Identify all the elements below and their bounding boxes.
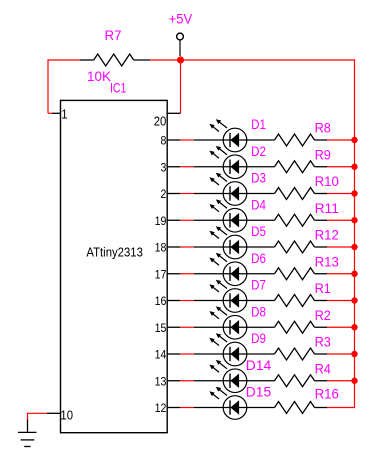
svg-text:R10: R10 xyxy=(315,173,339,189)
wire net pin 2 to LED D3 xyxy=(180,193,194,195)
svg-text:14: 14 xyxy=(155,348,167,362)
ground GND symbol xyxy=(18,419,37,446)
wire net pin 16 to LED D7 xyxy=(180,300,194,302)
svg-text:D8: D8 xyxy=(251,303,266,319)
pin 8 of IC1 xyxy=(161,134,181,148)
pin 14 of IC1 xyxy=(155,348,180,362)
wire +5V right rail bus xyxy=(354,59,356,408)
svg-text:D1: D1 xyxy=(251,116,266,132)
junction node row R9 xyxy=(351,164,357,170)
pin 12 of IC1 xyxy=(155,401,180,415)
svg-text:R8: R8 xyxy=(315,120,331,136)
resistor R9 xyxy=(275,161,328,173)
resistor R1 xyxy=(275,295,328,307)
wire +5V net: left drop to pin 1 xyxy=(47,59,80,113)
wire net R12 to +5V rail xyxy=(327,246,355,248)
resistor R10 xyxy=(275,188,328,200)
label R4 xyxy=(315,360,331,376)
resistor R16 xyxy=(275,402,328,414)
svg-text:10: 10 xyxy=(60,408,73,423)
label D15 xyxy=(246,384,272,400)
label R3 xyxy=(315,334,331,350)
resistor R8 xyxy=(275,134,328,146)
resistor R7 xyxy=(80,54,150,66)
wire net R11 to +5V rail xyxy=(327,219,355,221)
label R13 xyxy=(315,253,339,269)
LED D15 xyxy=(194,387,275,420)
svg-text:D6: D6 xyxy=(251,250,266,266)
svg-text:R3: R3 xyxy=(315,334,331,350)
label D6 xyxy=(251,250,266,266)
svg-text:D15: D15 xyxy=(246,384,272,400)
pin 15 of IC1 xyxy=(155,321,180,335)
svg-text:19: 19 xyxy=(155,214,167,228)
junction +5V node xyxy=(177,56,184,63)
svg-text:2: 2 xyxy=(161,187,167,201)
label R8 xyxy=(315,120,331,136)
pin 1 of IC1 xyxy=(52,106,68,121)
svg-text:R9: R9 xyxy=(315,146,331,162)
junction node row R2 xyxy=(351,324,357,330)
wire net R4 to +5V rail xyxy=(327,380,355,382)
wire net to pin 1 xyxy=(48,112,52,114)
svg-text:10K: 10K xyxy=(87,68,112,84)
wire net R1 to +5V rail xyxy=(327,300,355,302)
resistor R13 xyxy=(275,268,328,280)
LED D4 xyxy=(194,199,275,232)
junction node row R10 xyxy=(351,190,357,196)
svg-text:18: 18 xyxy=(155,241,167,255)
svg-text:ATtiny2313: ATtiny2313 xyxy=(86,245,142,260)
svg-text:13: 13 xyxy=(155,374,167,388)
pin 20 of IC1 xyxy=(154,113,181,128)
wire net pin 19 to LED D4 xyxy=(180,219,194,221)
svg-text:D9: D9 xyxy=(251,330,266,346)
svg-text:R13: R13 xyxy=(315,253,339,269)
wire +5V net: top bus to right rail xyxy=(180,59,355,61)
label R11 xyxy=(315,200,339,216)
label R9 xyxy=(315,146,331,162)
svg-text:R16: R16 xyxy=(315,386,339,402)
wire net pin 14 to LED D9 xyxy=(180,353,194,355)
LED D7 xyxy=(194,280,275,313)
wire net R16 to +5V rail xyxy=(327,407,355,409)
junction node row R1 xyxy=(351,297,357,303)
pin 2 of IC1 xyxy=(161,187,181,201)
junction node row R8 xyxy=(351,137,357,143)
wire net R13 to +5V rail xyxy=(327,273,355,275)
svg-text:16: 16 xyxy=(155,294,167,308)
svg-text:12: 12 xyxy=(155,401,167,415)
label ATtiny2313 xyxy=(86,245,142,260)
LED D14 xyxy=(194,360,275,393)
label R12 xyxy=(315,227,339,243)
label D1 xyxy=(251,116,266,132)
label D5 xyxy=(251,223,266,239)
LED D9 xyxy=(194,333,275,366)
pin 19 of IC1 xyxy=(155,214,180,228)
resistor R11 xyxy=(275,214,328,226)
IC IC1 ATtiny2313 body xyxy=(61,100,168,432)
junction node row R4 xyxy=(351,378,357,384)
label R10 xyxy=(315,173,339,189)
junction node row R13 xyxy=(351,271,357,277)
pin 10 of IC1 xyxy=(47,408,73,423)
svg-text:IC1: IC1 xyxy=(110,80,127,96)
svg-text:D7: D7 xyxy=(251,277,266,293)
wire net R8 to +5V rail xyxy=(327,139,355,141)
label R2 xyxy=(315,307,331,323)
resistor R12 xyxy=(275,241,328,253)
svg-text:D3: D3 xyxy=(251,170,266,186)
svg-text:R4: R4 xyxy=(315,360,331,376)
wire net R2 to +5V rail xyxy=(327,326,355,328)
svg-text:D2: D2 xyxy=(251,143,266,159)
LED D6 xyxy=(194,253,275,286)
svg-text:D14: D14 xyxy=(246,357,272,373)
label R1 xyxy=(315,280,331,296)
resistor R3 xyxy=(275,348,328,360)
label 10K value of R7 xyxy=(87,68,112,84)
LED D5 xyxy=(194,226,275,259)
power +5V terminal xyxy=(177,33,184,56)
LED D3 xyxy=(194,173,275,206)
wire net R10 to +5V rail xyxy=(327,193,355,195)
label D7 xyxy=(251,277,266,293)
LED D8 xyxy=(194,306,275,339)
svg-text:15: 15 xyxy=(155,321,167,335)
svg-text:R1: R1 xyxy=(315,280,331,296)
svg-text:R11: R11 xyxy=(315,200,339,216)
svg-text:17: 17 xyxy=(155,267,167,281)
wire net pin 12 to LED D15 xyxy=(180,407,194,409)
wire net pin 8 to LED D1 xyxy=(180,139,194,141)
wire net pin 13 to LED D14 xyxy=(180,380,194,382)
label D4 xyxy=(251,196,266,212)
svg-text:D4: D4 xyxy=(251,196,266,212)
wire net pin 15 to LED D8 xyxy=(180,326,194,328)
svg-text:D5: D5 xyxy=(251,223,266,239)
svg-text:+5V: +5V xyxy=(169,11,193,27)
svg-text:R2: R2 xyxy=(315,307,331,323)
label D8 xyxy=(251,303,266,319)
svg-text:R7: R7 xyxy=(105,27,122,43)
resistor R2 xyxy=(275,321,328,333)
label D9 xyxy=(251,330,266,346)
svg-text:R12: R12 xyxy=(315,227,339,243)
wire net pin 17 to LED D6 xyxy=(180,273,194,275)
label +5V xyxy=(169,11,193,27)
wire net pin10 to ground xyxy=(28,413,48,420)
svg-text:3: 3 xyxy=(161,160,167,174)
pin 16 of IC1 xyxy=(155,294,180,308)
label D14 xyxy=(246,357,272,373)
pin 18 of IC1 xyxy=(155,241,180,255)
svg-text:1: 1 xyxy=(61,106,67,121)
pin 17 of IC1 xyxy=(155,267,180,281)
junction node row R11 xyxy=(351,217,357,223)
pin 3 of IC1 xyxy=(161,160,181,174)
junction node row R3 xyxy=(351,351,357,357)
pin 13 of IC1 xyxy=(155,374,180,388)
svg-text:20: 20 xyxy=(154,114,167,129)
label IC1 xyxy=(110,80,127,96)
resistor R4 xyxy=(275,375,328,387)
junction node row R12 xyxy=(351,244,357,250)
wire net R9 to +5V rail xyxy=(327,166,355,168)
wire +5V net: R7 to junction xyxy=(150,59,181,61)
wire net pin 18 to LED D5 xyxy=(180,246,194,248)
label R16 xyxy=(315,386,339,402)
label R7 xyxy=(105,27,122,43)
label D2 xyxy=(251,143,266,159)
label D3 xyxy=(251,170,266,186)
LED D2 xyxy=(194,146,275,179)
wire net pin 3 to LED D2 xyxy=(180,166,194,168)
LED D1 xyxy=(194,119,275,152)
wire net R3 to +5V rail xyxy=(327,353,355,355)
wire +5V net: junction down to pin 20 xyxy=(180,60,182,113)
svg-text:8: 8 xyxy=(161,134,167,148)
